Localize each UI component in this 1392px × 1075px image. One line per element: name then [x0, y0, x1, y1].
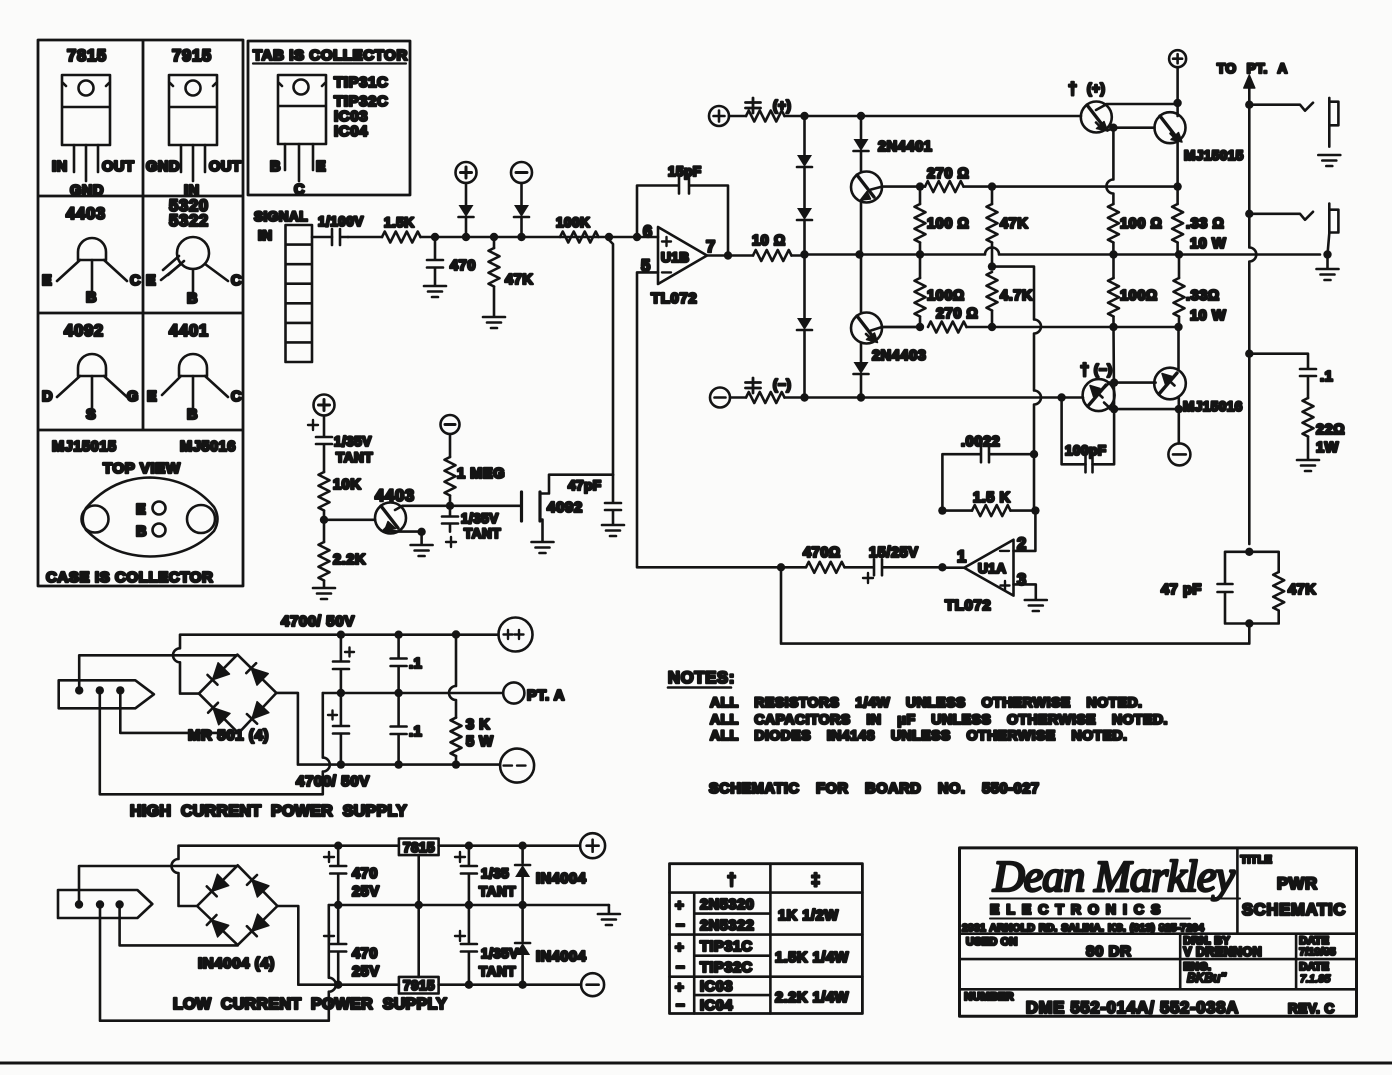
ground jack 2 / output [1317, 269, 1339, 280]
svg-text:4092: 4092 [64, 322, 104, 340]
svg-text:1K 1/2W: 1K 1/2W [778, 908, 839, 924]
svg-text:TL072: TL072 [651, 290, 697, 307]
svg-text:+: + [675, 979, 684, 996]
svg-text:PWR: PWR [1277, 875, 1318, 893]
svg-text:2N5320: 2N5320 [700, 897, 754, 913]
svg-text:+: + [675, 897, 684, 914]
op-amp U1A TL072 [942, 535, 1027, 614]
svg-text:C: C [231, 273, 242, 289]
main output line [805, 248, 1321, 255]
wire [435, 236, 609, 239]
4403 collector line to 1MEG node [403, 504, 522, 507]
node collector upper [916, 182, 924, 190]
bridge rectifier MR501 [188, 655, 276, 744]
capacitor 47pF mute [568, 475, 621, 524]
resistor 1.5K feedback U1A [938, 490, 1039, 516]
resistor 100K [556, 215, 599, 243]
svg-text:LOW CURRENT POWER SUPPLY: LOW CURRENT POWER SUPPLY [173, 996, 447, 1013]
svg-text:CASE IS COLLECTOR: CASE IS COLLECTOR [46, 569, 213, 586]
node 47K bottom / 4.7K top [988, 262, 996, 270]
ground 47K [483, 317, 505, 328]
svg-text:TANT: TANT [336, 450, 373, 465]
svg-text:ALL DIODES IN4148 UNLESS O: ALL DIODES IN4148 UNLESS OTHERWISE NOTED… [710, 727, 1127, 743]
svg-text:.33Ω: .33Ω [1186, 288, 1220, 304]
regulator 7915 [399, 905, 581, 994]
resistor 100 ohm lower-left [915, 255, 965, 328]
capacitor 4700/50V upper [333, 631, 354, 694]
svg-text:†: † [727, 871, 737, 889]
svg-text:10 Ω: 10 Ω [752, 233, 786, 249]
svg-text:1W: 1W [1316, 440, 1339, 456]
svg-text:4403: 4403 [66, 205, 106, 223]
svg-text:3 K: 3 K [466, 717, 490, 733]
node feedback bottom [1245, 619, 1253, 627]
wire pin5 feedback [637, 272, 781, 567]
svg-text:6: 6 [643, 223, 653, 241]
svg-text:REV. C: REV. C [1288, 1001, 1335, 1016]
terminal circle PT.A [503, 682, 565, 704]
power transistor MJ15015 [1155, 103, 1244, 187]
svg-text:4700/ 50V: 4700/ 50V [281, 613, 355, 630]
driver transistor dagger(-) [1080, 361, 1179, 411]
resistor .33 ohm 10W lower [1174, 255, 1227, 328]
svg-text:47 pF: 47 pF [1161, 582, 1202, 598]
capacitor 1/35V TANT 2 [442, 506, 501, 547]
svg-text:MJ5016: MJ5016 [180, 439, 236, 455]
svg-text:TOP VIEW: TOP VIEW [103, 460, 181, 477]
wire bridge minus to minus rail [276, 693, 500, 765]
resistor 22 ohm 1W zobel [1303, 398, 1346, 459]
power transistor MJ15016 [1154, 327, 1243, 414]
svg-text:470: 470 [450, 258, 476, 274]
node mute base [320, 516, 328, 524]
svg-text:TL072: TL072 [945, 597, 991, 614]
diode string lower [797, 255, 812, 398]
svg-text:C: C [130, 273, 141, 289]
positive terminal circle MJ15015 collector [1169, 50, 1186, 67]
svg-text:(+): (+) [773, 98, 791, 113]
regulator 7815 pinout [52, 47, 134, 199]
svg-text:IN4004: IN4004 [536, 871, 586, 887]
node feedback / U1A input [777, 563, 785, 571]
svg-text:47K: 47K [1000, 216, 1028, 232]
diode 2N4401 [854, 116, 933, 172]
svg-text:IC04: IC04 [700, 998, 733, 1014]
svg-text:100 Ω: 100 Ω [927, 216, 969, 232]
svg-text:G: G [127, 389, 139, 405]
svg-text:MJ15015: MJ15015 [52, 439, 117, 455]
svg-text:1.5K 1/4W: 1.5K 1/4W [775, 950, 849, 966]
terminal circle - low [581, 973, 604, 996]
wire pin3 to ground [1014, 584, 1036, 599]
bottom rule [0, 1062, 1392, 1065]
svg-text:†: † [1068, 80, 1078, 98]
capacitor .1 lower [391, 693, 423, 765]
svg-text:10K: 10K [333, 477, 361, 493]
resistor (+) rail dagger [729, 98, 1081, 122]
svg-text:100Ω: 100Ω [1120, 288, 1158, 304]
transistor 4401 pinout cell [147, 322, 242, 423]
svg-text:S: S [86, 407, 96, 423]
svg-text:(−): (−) [773, 377, 791, 392]
negative terminal circle MJ15016 collector [1178, 409, 1181, 443]
node 2N4401 branch top [857, 112, 865, 120]
svg-text:OUT: OUT [209, 159, 241, 175]
positive terminal circle mute supply [314, 395, 335, 416]
svg-text:7/19/85: 7/19/85 [1299, 946, 1335, 958]
svg-text:TAB IS COLLECTOR: TAB IS COLLECTOR [253, 47, 408, 64]
svg-text:25V: 25V [352, 884, 380, 900]
svg-text:100Ω: 100Ω [927, 288, 965, 304]
svg-text:47K: 47K [1288, 582, 1316, 598]
svg-text:1/35V: 1/35V [334, 434, 372, 449]
diode 2N4403 branch [854, 362, 869, 398]
wire to node [421, 236, 436, 239]
wire bridge plus to + rail [172, 846, 399, 906]
svg-text:1/35V: 1/35V [461, 511, 499, 526]
svg-text:.33 Ω: .33 Ω [1186, 216, 1224, 232]
svg-text:TIP31C: TIP31C [334, 74, 388, 91]
svg-text:MJ15016: MJ15016 [1183, 399, 1243, 414]
svg-text:7: 7 [706, 238, 716, 256]
capacitor 1/35V TANT lower [455, 905, 519, 985]
svg-text:DME 552-014A/ 552-038A: DME 552-014A/ 552-038A [1026, 999, 1239, 1017]
diode IN4004 lower [515, 905, 586, 985]
regulator 7815 [399, 839, 580, 906]
svg-text:47K: 47K [505, 272, 533, 288]
node 270 right / 47K top [988, 182, 996, 190]
regulator 7915 pinout [146, 47, 241, 199]
capacitor 470 25V upper [324, 842, 380, 906]
capacitor .0022 feedback U1A [942, 434, 1034, 511]
resistor 100 ohm upper-left [915, 187, 970, 255]
diode IN4004 upper [515, 842, 586, 906]
svg-text:Dean Markley: Dean Markley [992, 852, 1235, 901]
resistor 10 ohm [752, 233, 792, 261]
svg-text:IC03: IC03 [700, 979, 733, 995]
svg-text:47pF: 47pF [568, 478, 602, 493]
positive supply terminal circle (+) input clamp [456, 162, 477, 183]
op-amp U1B TL072 [641, 223, 716, 307]
svg-text:NOTES:: NOTES: [668, 669, 735, 687]
wire connector to C input [312, 236, 332, 239]
capacitor .1 zobel [1249, 354, 1333, 398]
wire 47K-top to MJ15015 emitter [992, 185, 1178, 188]
wire feedback bottom run [781, 567, 1249, 643]
svg-text:U1A: U1A [978, 561, 1007, 576]
ground 47pF [602, 525, 624, 536]
svg-text:IC04: IC04 [334, 123, 368, 140]
svg-text:470Ω: 470Ω [803, 545, 841, 561]
resistor .33 ohm 10W upper [1172, 187, 1226, 255]
connector low current [58, 890, 152, 918]
capacitor 1/100V input coupling [318, 214, 364, 245]
svg-text:MR 501 (4): MR 501 (4) [188, 727, 269, 744]
svg-text:−: − [676, 997, 685, 1014]
wire pin3 to bridge bottom [120, 690, 238, 733]
resistor 3K 5W bleeder [449, 630, 494, 764]
svg-text:HIGH CURRENT POWER SUPPLY: HIGH CURRENT POWER SUPPLY [130, 803, 407, 820]
resistor 10K mute [319, 472, 362, 511]
resistor 4.7K bias [987, 272, 1034, 327]
svg-text:.1: .1 [1320, 369, 1333, 385]
output jack 2 [1249, 204, 1338, 234]
node diode string top [800, 112, 808, 120]
ground 2.2K [313, 588, 335, 599]
capacitor 4700/50V lower [328, 693, 349, 765]
driver transistor dagger(+) [1068, 80, 1178, 133]
mid rail ground [329, 904, 609, 907]
wire pin2 center tap riser [100, 905, 336, 1021]
svg-text:IN4004: IN4004 [536, 949, 586, 965]
wire [348, 236, 382, 239]
svg-text:IN: IN [258, 228, 273, 243]
diode clamp to + [465, 183, 468, 205]
svg-text:.1: .1 [409, 656, 422, 672]
capacitor 1/35V TANT mute [308, 416, 373, 473]
wire pin3 to bridge bottom [120, 905, 238, 946]
svg-text:B: B [187, 291, 198, 307]
svg-text:10 W: 10 W [1190, 236, 1226, 252]
svg-text:TANT: TANT [479, 884, 516, 899]
svg-text:TIP32C: TIP32C [700, 960, 753, 976]
svg-text:1/35: 1/35 [481, 866, 509, 881]
transistor 4403 pinout cell [42, 205, 141, 306]
wire pin1 to bridge top [79, 655, 237, 690]
terminal circle ++ [499, 618, 533, 652]
FET 4092 mute switch [522, 475, 614, 541]
capacitor 470 25V lower [324, 905, 380, 985]
node collector lower [916, 323, 924, 331]
svg-text:SCHEMATIC: SCHEMATIC [1242, 901, 1346, 919]
capacitor 470 input filter [427, 237, 476, 285]
connector high current [59, 680, 154, 708]
TO PT. A arrow [1217, 61, 1288, 544]
svg-text:15pF: 15pF [668, 164, 702, 179]
resistor 2.2K mute [319, 542, 367, 581]
resistor 270 ohm upper [920, 166, 992, 192]
svg-text:B: B [270, 159, 281, 175]
svg-text:2.2K 1/4W: 2.2K 1/4W [775, 990, 849, 1006]
resistor 47K input bias [489, 233, 534, 316]
node driver emitter upper [1109, 124, 1117, 132]
svg-text:DATE: DATE [1299, 961, 1329, 973]
signal input connector [254, 209, 312, 362]
ground 4403 emitter [411, 528, 433, 556]
svg-text:1 MEG: 1 MEG [457, 466, 505, 482]
svg-text:U1B: U1B [661, 250, 690, 265]
output jack 1 [1249, 98, 1338, 147]
transistor bias lower (2N4403) [851, 255, 926, 365]
transistor 5320/5322 pinout cell [146, 197, 242, 307]
svg-text:GND: GND [70, 183, 104, 199]
transistor 4403 mute [324, 487, 422, 534]
svg-text:2N5322: 2N5322 [700, 918, 754, 934]
TAB IS COLLECTOR pinout box (TIP31C TIP32C IC03 IC04) [248, 41, 410, 198]
svg-text:4092: 4092 [547, 499, 583, 516]
svg-text:80 DR: 80 DR [1086, 943, 1132, 960]
svg-text:+: + [675, 939, 684, 956]
node into U1B [605, 233, 613, 241]
wire bridge minus to - rail [277, 906, 399, 985]
svg-text:B: B [187, 407, 198, 423]
feedback capacitor 15pF [633, 164, 728, 256]
svg-text:470: 470 [352, 866, 378, 882]
svg-text:2.2K: 2.2K [333, 552, 366, 568]
resistor 47K bias [987, 187, 1029, 267]
ground zobel [1297, 460, 1319, 471]
svg-text:GND: GND [146, 159, 180, 175]
resistor 100 ohm lower-right [1108, 255, 1158, 328]
ground 470 cap [424, 286, 446, 297]
svg-text:2931 ARNOLD RD. SALINA. KS: 2931 ARNOLD RD. SALINA. KS. (913) 825-72… [962, 922, 1204, 934]
svg-text:15/25V: 15/25V [869, 545, 919, 561]
negative terminal circle mute [441, 415, 460, 434]
diode clamp to - [520, 183, 523, 205]
svg-text:B: B [136, 524, 147, 540]
svg-text:(−): (−) [1094, 362, 1112, 377]
svg-text:TANT: TANT [464, 526, 501, 541]
transistor bias upper (2N4401) [851, 172, 920, 255]
svg-text:470: 470 [352, 946, 378, 962]
svg-text:7915: 7915 [172, 47, 212, 65]
resistor 47K feedback [1249, 552, 1316, 624]
svg-text:100K: 100K [556, 215, 590, 230]
svg-text:E: E [42, 273, 52, 289]
svg-text:22Ω: 22Ω [1316, 422, 1345, 438]
svg-text:270 Ω: 270 Ω [927, 166, 969, 182]
wire node-pin6 down to mute line [609, 237, 613, 475]
svg-text:SIGNAL: SIGNAL [254, 209, 308, 224]
line bias low row [882, 326, 1179, 329]
svg-text:7815: 7815 [403, 840, 435, 855]
svg-text:2N4401: 2N4401 [878, 139, 932, 155]
svg-text:ALL RESISTORS 1/4W UNLESS: ALL RESISTORS 1/4W UNLESS OTHERWISE NOTE… [710, 694, 1142, 710]
svg-text:1: 1 [957, 548, 967, 566]
svg-text:1.5 K: 1.5 K [973, 490, 1011, 506]
svg-text:‡: ‡ [811, 871, 821, 889]
ground 4092 source [532, 542, 554, 553]
svg-text:7915: 7915 [403, 978, 435, 993]
diode string upper [797, 116, 812, 255]
negative rail terminal circle (-) [710, 388, 730, 408]
notes heading [668, 669, 735, 688]
svg-text:1.5K: 1.5K [384, 215, 415, 230]
svg-text:TANT: TANT [479, 964, 516, 979]
svg-text:BKBu'': BKBu'' [1187, 971, 1226, 985]
svg-text:V DRENNON: V DRENNON [1183, 945, 1262, 959]
capacitor 100pF [1062, 398, 1107, 473]
ground mid rail [608, 905, 611, 913]
svg-text:TITLE: TITLE [1241, 854, 1273, 866]
wire pin1 to bridge top [79, 866, 238, 905]
svg-text:1/35V: 1/35V [481, 946, 519, 961]
terminal circle minus minus [500, 749, 534, 783]
capacitor 15/25V feedback [845, 545, 943, 583]
svg-text:C: C [294, 182, 305, 198]
svg-text:(+): (+) [1087, 81, 1105, 96]
node zobel tap [1245, 350, 1253, 358]
svg-text:7815: 7815 [67, 47, 107, 65]
node feedback pickup top [1245, 548, 1253, 556]
svg-text:.1: .1 [409, 724, 422, 740]
svg-text:PT. A: PT. A [527, 688, 565, 704]
svg-text:−: − [676, 959, 685, 976]
svg-text:4.7K: 4.7K [1000, 288, 1033, 304]
svg-text:5 W: 5 W [466, 734, 494, 750]
svg-text:4700/ 50V: 4700/ 50V [296, 773, 370, 790]
pinout reference grid box [38, 40, 243, 586]
negative supply terminal circle (-) input clamp [511, 162, 532, 183]
svg-text:E: E [136, 502, 146, 518]
capacitor 47pF feedback [1161, 552, 1249, 624]
terminal circle + low [580, 833, 605, 858]
resistor 470 ohm feedback [781, 545, 845, 573]
dagger value table [670, 864, 863, 1014]
svg-text:C: C [231, 389, 242, 405]
svg-text:TIP31C: TIP31C [700, 939, 753, 955]
svg-text:25V: 25V [352, 964, 380, 980]
svg-text:7.1.85: 7.1.85 [1300, 973, 1330, 985]
node 470 cap [431, 233, 439, 241]
svg-text:B: B [86, 290, 97, 306]
FET 4092 pinout cell [42, 322, 139, 423]
capacitor 1/35 TANT upper [455, 842, 516, 906]
wire pin2 [1014, 511, 1036, 551]
svg-text:270 Ω: 270 Ω [936, 306, 978, 322]
svg-text:ALL CAPACITORS IN μF UNLES: ALL CAPACITORS IN μF UNLESS OTHERWISE NO… [710, 711, 1168, 727]
svg-text:IN4004 (4): IN4004 (4) [198, 955, 275, 972]
svg-text:E: E [316, 159, 326, 175]
resistor 1 MEG [445, 434, 506, 506]
ground jack 1 [1318, 155, 1340, 166]
svg-text:IN: IN [52, 159, 68, 175]
svg-text:4401: 4401 [169, 322, 209, 340]
svg-text:.0022: .0022 [961, 434, 1000, 450]
svg-text:†: † [1080, 361, 1090, 379]
ground U1A pin3 [1025, 600, 1047, 611]
svg-text:3: 3 [1017, 571, 1027, 589]
wire bridge plus to ++ rail [180, 635, 499, 694]
svg-text:−: − [676, 917, 685, 934]
svg-text:10 W: 10 W [1190, 308, 1226, 324]
node U1A output [938, 563, 946, 571]
MJ15015/MJ5016 TO-3 package top view box [46, 439, 236, 586]
wire 47K/4.7K node to feedback tap [992, 267, 1041, 455]
svg-text:OUT: OUT [102, 159, 134, 175]
svg-text:D: D [42, 389, 53, 405]
svg-text:USED ON: USED ON [966, 936, 1018, 948]
resistor 1.5K [382, 215, 421, 243]
bridge rectifier IN4004 [197, 865, 277, 972]
svg-text:E: E [146, 273, 156, 289]
svg-text:E: E [147, 389, 157, 405]
positive rail terminal circle (+) [709, 106, 729, 126]
resistor 100 ohm upper-right [1106, 128, 1162, 255]
resistor (-) rail dagger [730, 377, 1083, 403]
vertical emitter tie lower [1093, 327, 1115, 464]
title block [960, 848, 1357, 1017]
node .0022 / bias tap [1030, 450, 1038, 458]
svg-text:2N4403: 2N4403 [872, 348, 926, 364]
svg-text:TO PT. A: TO PT. A [1217, 61, 1288, 76]
svg-text:MJ15015: MJ15015 [1184, 148, 1244, 163]
svg-text:SCHEMATIC FOR BOARD NO. 55: SCHEMATIC FOR BOARD NO. 550-027 [709, 781, 1040, 797]
svg-text:100 Ω: 100 Ω [1120, 216, 1162, 232]
node 2N4403 branch bottom [857, 393, 865, 401]
mid rail PT.A [323, 692, 503, 695]
svg-text:NUMBER: NUMBER [964, 991, 1013, 1003]
